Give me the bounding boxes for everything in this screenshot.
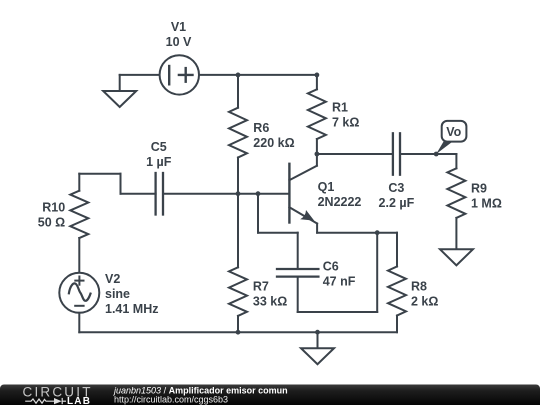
svg-text:R8: R8 <box>411 280 427 294</box>
svg-text:Q1: Q1 <box>318 180 335 194</box>
svg-text:47 nF: 47 nF <box>323 274 356 288</box>
wire collector rail to C3 <box>317 153 393 155</box>
svg-text:C6: C6 <box>323 259 339 273</box>
wire C6 top lead <box>297 233 299 269</box>
wire up to emitter junction <box>376 233 378 312</box>
voltage source V1 <box>160 55 199 94</box>
wire R7 bottom lead <box>237 316 239 332</box>
svg-text:C3: C3 <box>388 181 404 195</box>
resistor R7 <box>229 267 247 316</box>
wire bottom rail <box>79 331 397 333</box>
svg-text:R9: R9 <box>471 181 487 195</box>
svg-text:33 kΩ: 33 kΩ <box>253 295 287 309</box>
wire C6 bottom rail <box>298 311 378 313</box>
wire R6 bottom lead <box>237 158 239 194</box>
resistor R10 <box>70 191 88 238</box>
node Vo flag <box>436 121 466 154</box>
svg-text:LAB: LAB <box>67 396 91 405</box>
wire R8 bottom lead <box>396 316 398 333</box>
svg-text:2 kΩ: 2 kΩ <box>411 294 438 308</box>
svg-text:7 kΩ: 7 kΩ <box>332 115 359 129</box>
ground <box>103 91 136 107</box>
capacitor C5 <box>156 173 163 215</box>
logo schematic line <box>25 398 66 404</box>
wire jog down to C5 level <box>120 174 122 194</box>
wire R10 to V2 <box>78 238 80 273</box>
svg-text:50 Ω: 50 Ω <box>38 215 65 229</box>
wire bottom ground stem <box>317 332 319 348</box>
wire base rail C5 to Q1 base <box>163 193 289 195</box>
wire top rail left of V1 <box>120 74 160 76</box>
svg-text:2N2222: 2N2222 <box>318 195 362 209</box>
svg-text:1 MΩ: 1 MΩ <box>471 196 502 210</box>
svg-text:Vo: Vo <box>446 125 461 139</box>
svg-text:sine: sine <box>105 287 130 301</box>
capacitor C3 <box>393 133 400 174</box>
node junction dots <box>236 73 439 335</box>
ground <box>301 348 334 364</box>
svg-text:http://circuitlab.com/cggs6b3: http://circuitlab.com/cggs6b3 <box>114 394 228 404</box>
wire R9 bottom lead <box>455 218 457 249</box>
svg-text:V2: V2 <box>105 272 120 286</box>
wire R1 top lead <box>316 75 318 89</box>
resistor R9 <box>447 168 465 218</box>
svg-text:10 V: 10 V <box>166 35 192 49</box>
svg-text:1 µF: 1 µF <box>146 155 172 169</box>
wire C6 bottom lead <box>297 277 299 312</box>
wire R10 top jog horizontal <box>79 173 120 175</box>
transistor Q1 <box>289 154 317 233</box>
voltage source V2 <box>59 273 99 313</box>
wire V2 bottom <box>78 313 80 332</box>
wire down to top-left ground <box>119 75 121 91</box>
svg-text:V1: V1 <box>171 20 186 34</box>
wire R7 top lead <box>237 194 239 268</box>
svg-text:R1: R1 <box>332 100 348 114</box>
svg-text:R6: R6 <box>253 121 269 135</box>
wire base branch to C6 column <box>258 232 298 234</box>
wire C3 to R9 corner <box>400 153 456 155</box>
wire emitter rail <box>317 232 397 234</box>
svg-text:2.2 µF: 2.2 µF <box>379 196 415 210</box>
wire to C5 left plate <box>121 193 156 195</box>
wire R6 top lead <box>237 75 239 108</box>
resistor R6 <box>229 108 247 158</box>
svg-text:1.41 MHz: 1.41 MHz <box>105 302 159 316</box>
ground <box>440 249 473 265</box>
svg-text:C5: C5 <box>151 140 167 154</box>
svg-text:220 kΩ: 220 kΩ <box>253 136 294 150</box>
svg-text:R10: R10 <box>42 200 65 214</box>
wire R8 top lead <box>396 233 398 267</box>
wire R10 top lead <box>78 174 80 191</box>
wire R1 bottom lead <box>316 139 318 154</box>
resistor R1 <box>308 89 326 139</box>
wire top rail V1 to R1 column <box>199 74 317 76</box>
resistor R8 <box>388 267 406 316</box>
wire R9 top lead <box>455 154 457 168</box>
wire base T branch down <box>257 194 259 233</box>
capacitor C6 <box>277 269 318 277</box>
svg-text:R7: R7 <box>253 280 269 294</box>
